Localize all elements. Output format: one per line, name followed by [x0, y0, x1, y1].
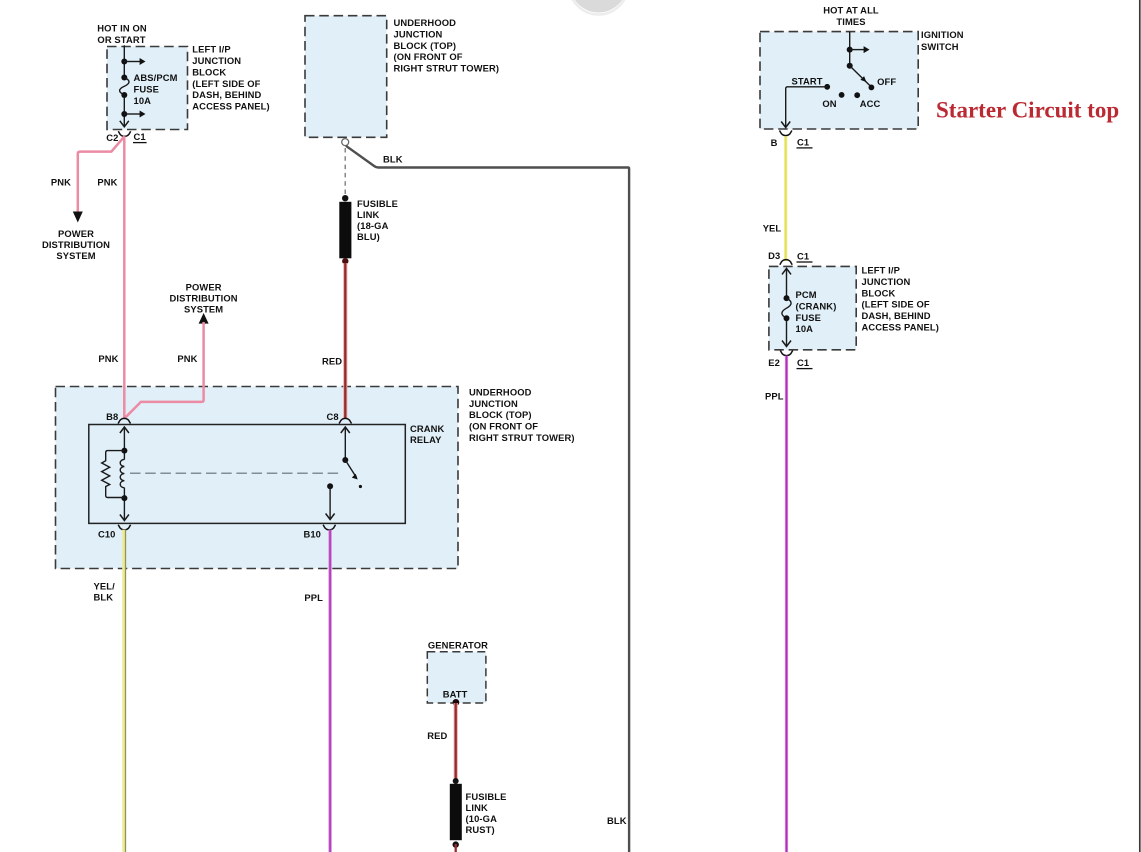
svg-text:YEL: YEL: [763, 222, 782, 233]
wire vertical through block J1: [123, 45, 125, 77]
crank relay box: [89, 425, 406, 524]
label BLK 2: [607, 815, 627, 826]
contact wire down: [329, 486, 331, 519]
svg-text:BLU): BLU): [357, 231, 380, 242]
relay coil vertical wire bottom: [123, 488, 125, 520]
svg-text:RELAY: RELAY: [410, 434, 442, 445]
relay coil down arrow: [120, 515, 129, 521]
pink wire PNK from power distribution 2 to B8: [125, 322, 204, 418]
note: UNDERHOOD JUNCTION BLOCK (TOP): [394, 17, 500, 74]
window border right edge: [1139, 0, 1141, 852]
wire below FL2: [455, 844, 457, 852]
switch pivot dot: [847, 63, 853, 69]
down arrow into connector: [120, 121, 129, 127]
wire PPL right: [785, 356, 788, 852]
junction dot: [784, 295, 790, 301]
svg-text:SYSTEM: SYSTEM: [184, 304, 223, 315]
label FUSIBLE LINK (10-GA RUST): [466, 791, 507, 835]
watermark circle: [569, 0, 628, 15]
coil L1 windings: [120, 459, 124, 487]
svg-text:GENERATOR: GENERATOR: [428, 640, 488, 651]
svg-text:D3: D3: [768, 250, 780, 261]
connector cup E2: [780, 351, 792, 356]
fusible link FL2 bottom dot: [453, 841, 459, 847]
svg-text:Starter Circuit top: Starter Circuit top: [936, 98, 1119, 123]
label RED: [427, 730, 447, 741]
label FUSIBLE LINK (18-GA BLU): [357, 198, 398, 242]
fusible link FL2 top dot: [453, 778, 459, 784]
svg-text:RED: RED: [322, 356, 342, 367]
label BATT: [443, 689, 468, 700]
junction dot: [121, 75, 127, 81]
junction block J3 (UNDERHOOD top, relay): [56, 387, 459, 569]
svg-text:(LEFT SIDE OF: (LEFT SIDE OF: [862, 299, 930, 310]
fusible link FL2 (10-GA RUST) body: [450, 784, 462, 840]
contact dot ACC: [854, 92, 860, 98]
dashed lead wire: [344, 148, 346, 197]
relay coil lead up arrow: [120, 427, 129, 433]
switch contact dot: [327, 483, 333, 489]
label C2: [106, 132, 118, 143]
wire RED from FL1 to C8: [343, 263, 347, 418]
svg-text:RUST): RUST): [466, 824, 495, 835]
ignition switch box: [760, 32, 918, 129]
label PCM (CRANK) FUSE 10A: [796, 289, 837, 334]
label GENERATOR: [428, 640, 488, 651]
svg-text:C1: C1: [797, 136, 809, 147]
relay coil vertical wire top: [123, 428, 125, 460]
svg-text:PNK: PNK: [177, 353, 197, 364]
svg-text:ACCESS PANEL): ACCESS PANEL): [862, 322, 939, 333]
fuse PCM (CRANK) 10A: [782, 298, 791, 318]
label C1 underlined 2: [797, 250, 813, 262]
switch common dot: [342, 457, 348, 463]
svg-text:LEFT I/P: LEFT I/P: [192, 44, 230, 55]
svg-text:ABS/PCM: ABS/PCM: [134, 72, 178, 83]
label B: [771, 137, 778, 148]
svg-text:PNK: PNK: [97, 177, 117, 188]
svg-text:HOT AT ALL: HOT AT ALL: [823, 5, 879, 16]
label PNK: [51, 177, 71, 188]
pink wire branch to power distribution: [78, 136, 125, 212]
note: UNDERHOOD JUNCTION BLOCK (TOP) 2: [469, 386, 575, 443]
ignition feed wire: [849, 32, 851, 66]
switch blade with arrow: [345, 460, 356, 478]
svg-text:BLK: BLK: [607, 815, 627, 826]
junction dot coil top: [121, 448, 127, 454]
node POWER DISTRIBUTION SYSTEM 2: [170, 281, 238, 314]
svg-text:10A: 10A: [134, 95, 152, 106]
label PNK: [97, 177, 117, 188]
svg-text:C8: C8: [326, 411, 338, 422]
label C1 underlined: [133, 131, 147, 143]
connector cup B8: [118, 418, 130, 423]
label C1 underlined 3: [797, 357, 813, 369]
node HOT IN ON OR START: [97, 22, 147, 45]
fuse ABS/PCM 10A: [120, 78, 129, 96]
junction block J2 (UNDERHOOD top): [305, 16, 387, 138]
svg-text:OFF: OFF: [877, 76, 896, 87]
label fuse: [134, 72, 178, 106]
svg-text:BLOCK (TOP): BLOCK (TOP): [469, 409, 532, 420]
terminal dot BATT: [453, 699, 460, 706]
svg-text:DISTRIBUTION: DISTRIBUTION: [170, 292, 238, 303]
svg-text:BATT: BATT: [443, 689, 468, 700]
wire YEL: [784, 136, 787, 261]
connector cup B: [780, 131, 792, 136]
note: LEFT I/P JUNCTION BLOCK 2: [862, 265, 939, 333]
svg-text:JUNCTION: JUNCTION: [469, 398, 518, 409]
svg-text:LINK: LINK: [466, 802, 488, 813]
label YEL/BLK: [94, 580, 116, 602]
fusible link FL1 (18-GA BLU) body: [339, 202, 351, 258]
label PPL: [304, 592, 323, 603]
connector cup D3: [780, 260, 792, 265]
label START: [792, 75, 823, 86]
svg-text:BLOCK (TOP): BLOCK (TOP): [394, 40, 457, 51]
fusible link FL1 terminal dot: [342, 195, 348, 201]
svg-text:ACCESS PANEL): ACCESS PANEL): [192, 101, 269, 112]
svg-text:(CRANK): (CRANK): [796, 300, 837, 311]
svg-text:LINK: LINK: [357, 209, 379, 220]
svg-text:SYSTEM: SYSTEM: [56, 250, 95, 261]
fuse lead wire: [786, 269, 788, 298]
label YEL: [763, 222, 782, 233]
svg-text:BLK: BLK: [383, 154, 403, 165]
svg-text:BLK: BLK: [94, 592, 114, 603]
svg-text:RIGHT STRUT TOWER): RIGHT STRUT TOWER): [394, 63, 500, 74]
label D3: [768, 250, 780, 261]
junction dot: [121, 111, 127, 117]
label B8: [106, 411, 118, 422]
label ACC: [860, 98, 881, 109]
junction block J1 (LEFT I/P JUNCTION BLOCK): [107, 47, 188, 130]
label PNK: [98, 353, 118, 364]
node circle terminal: [342, 139, 349, 146]
svg-text:RED: RED: [427, 730, 447, 741]
contact down arrow: [326, 514, 335, 520]
svg-text:TIMES: TIMES: [836, 16, 865, 27]
svg-text:CRANK: CRANK: [410, 423, 445, 434]
svg-text:C2: C2: [106, 132, 118, 143]
svg-text:PCM: PCM: [796, 289, 817, 300]
svg-text:ACC: ACC: [860, 98, 881, 109]
svg-text:C1: C1: [134, 131, 146, 142]
svg-text:RIGHT STRUT TOWER): RIGHT STRUT TOWER): [469, 432, 575, 443]
svg-text:BLOCK: BLOCK: [862, 287, 896, 298]
connector cup B10: [323, 525, 335, 530]
junction dot coil bottom: [121, 495, 127, 501]
svg-text:E2: E2: [768, 357, 780, 368]
svg-text:IGNITION: IGNITION: [921, 29, 964, 40]
svg-text:HOT IN ON: HOT IN ON: [97, 22, 147, 33]
wire RED generator: [454, 703, 458, 780]
up arrow in J4: [782, 268, 791, 274]
svg-text:FUSE: FUSE: [796, 312, 821, 323]
svg-text:FUSIBLE: FUSIBLE: [466, 791, 507, 802]
svg-text:C1: C1: [797, 357, 809, 368]
ignition blade with arrow: [850, 66, 870, 86]
tap arrow 1: [124, 58, 145, 65]
svg-text:B: B: [771, 137, 778, 148]
svg-text:10A: 10A: [796, 323, 814, 334]
connector cup C10: [118, 525, 130, 530]
tap arrow 2: [124, 111, 145, 118]
junction dot: [847, 47, 853, 53]
svg-text:UNDERHOOD: UNDERHOOD: [394, 17, 457, 28]
svg-text:BLOCK: BLOCK: [192, 66, 226, 77]
relay switch lead up arrow: [341, 427, 350, 433]
connector cup C8: [339, 418, 351, 423]
arrow to POWER DISTRIBUTION SYSTEM: [73, 212, 83, 223]
pink wire PNK from C1 down to B8: [123, 136, 126, 418]
tap arrow right: [850, 46, 870, 53]
contact dot START: [824, 84, 830, 90]
svg-text:PPL: PPL: [304, 592, 323, 603]
label E2: [768, 357, 780, 368]
svg-text:LEFT I/P: LEFT I/P: [862, 265, 900, 276]
svg-text:ON: ON: [822, 98, 836, 109]
junction dot: [784, 315, 790, 321]
svg-text:FUSE: FUSE: [134, 84, 159, 95]
node HOT AT ALL TIMES: [823, 5, 879, 28]
svg-text:POWER: POWER: [186, 281, 222, 292]
label PPL 2: [765, 391, 784, 402]
svg-text:PNK: PNK: [51, 177, 71, 188]
svg-text:FUSIBLE: FUSIBLE: [357, 198, 398, 209]
down arrow at B: [781, 122, 790, 128]
label RED: [322, 356, 342, 367]
svg-text:DASH, BEHIND: DASH, BEHIND: [192, 89, 261, 100]
label OFF: [877, 76, 896, 87]
relay actuator dashed line: [130, 472, 342, 474]
svg-text:PNK: PNK: [98, 353, 118, 364]
wire PPL down from B10: [329, 530, 332, 852]
note: LEFT I/P JUNCTION BLOCK location: [192, 44, 269, 112]
svg-text:(ON FRONT OF: (ON FRONT OF: [469, 421, 538, 432]
svg-text:UNDERHOOD: UNDERHOOD: [469, 386, 532, 397]
label C1 underlined: [797, 136, 813, 148]
svg-text:(LEFT SIDE OF: (LEFT SIDE OF: [192, 78, 260, 89]
down arrow in J4: [782, 341, 791, 347]
wire YEL/BLK down from C10: [122, 530, 125, 852]
svg-text:POWER: POWER: [58, 228, 94, 239]
resistor branch (parallel with coil): [102, 451, 125, 498]
arrow up to POWER DISTRIBUTION SYSTEM 2: [199, 313, 209, 324]
start wire to B: [786, 87, 828, 127]
svg-text:START: START: [792, 75, 823, 86]
label B10: [303, 528, 321, 539]
svg-text:YEL/: YEL/: [94, 580, 116, 591]
wire BLK from node to right and down: [346, 146, 629, 852]
node POWER DISTRIBUTION SYSTEM: [42, 228, 110, 261]
contact dot ON: [839, 92, 845, 98]
connector cup C1 (bottom of J1): [118, 131, 130, 136]
svg-text:PPL: PPL: [765, 391, 784, 402]
label PNK: [177, 353, 197, 364]
svg-text:(ON FRONT OF: (ON FRONT OF: [394, 51, 463, 62]
svg-text:C1: C1: [797, 250, 809, 261]
relay switch common wire: [344, 428, 346, 461]
label IGNITION SWITCH: [921, 29, 964, 52]
svg-text:OR START: OR START: [97, 34, 145, 45]
svg-text:JUNCTION: JUNCTION: [862, 276, 911, 287]
junction dot: [121, 59, 127, 65]
switch throw tiny dot: [359, 485, 362, 488]
label BLK: [383, 154, 403, 165]
label C8: [326, 411, 338, 422]
generator box: [427, 652, 486, 703]
svg-text:C10: C10: [98, 528, 116, 539]
label CRANK RELAY: [410, 423, 445, 445]
svg-text:DASH, BEHIND: DASH, BEHIND: [862, 310, 931, 321]
svg-text:JUNCTION: JUNCTION: [192, 55, 241, 66]
fusible link FL1 bottom dot: [342, 258, 348, 264]
svg-text:(10-GA: (10-GA: [466, 813, 498, 824]
label C10: [98, 528, 116, 539]
svg-text:(18-GA: (18-GA: [357, 220, 389, 231]
svg-text:B8: B8: [106, 411, 118, 422]
svg-text:DISTRIBUTION: DISTRIBUTION: [42, 239, 110, 250]
svg-text:B10: B10: [303, 528, 321, 539]
svg-text:JUNCTION: JUNCTION: [394, 28, 443, 39]
junction block J4 (PCM fuse): [769, 266, 856, 349]
junction dot: [121, 92, 127, 98]
label ON: [822, 98, 836, 109]
svg-text:SWITCH: SWITCH: [921, 41, 959, 52]
